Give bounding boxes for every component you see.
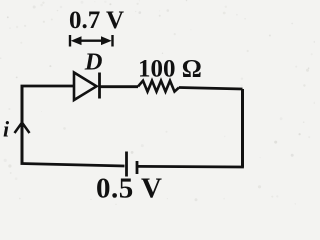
svg-text:D: D [84,48,103,75]
svg-text:i: i [3,116,10,141]
svg-text:0.7 V: 0.7 V [69,7,124,34]
svg-text:0.5 V: 0.5 V [96,172,162,204]
svg-text:100 Ω: 100 Ω [138,56,202,83]
